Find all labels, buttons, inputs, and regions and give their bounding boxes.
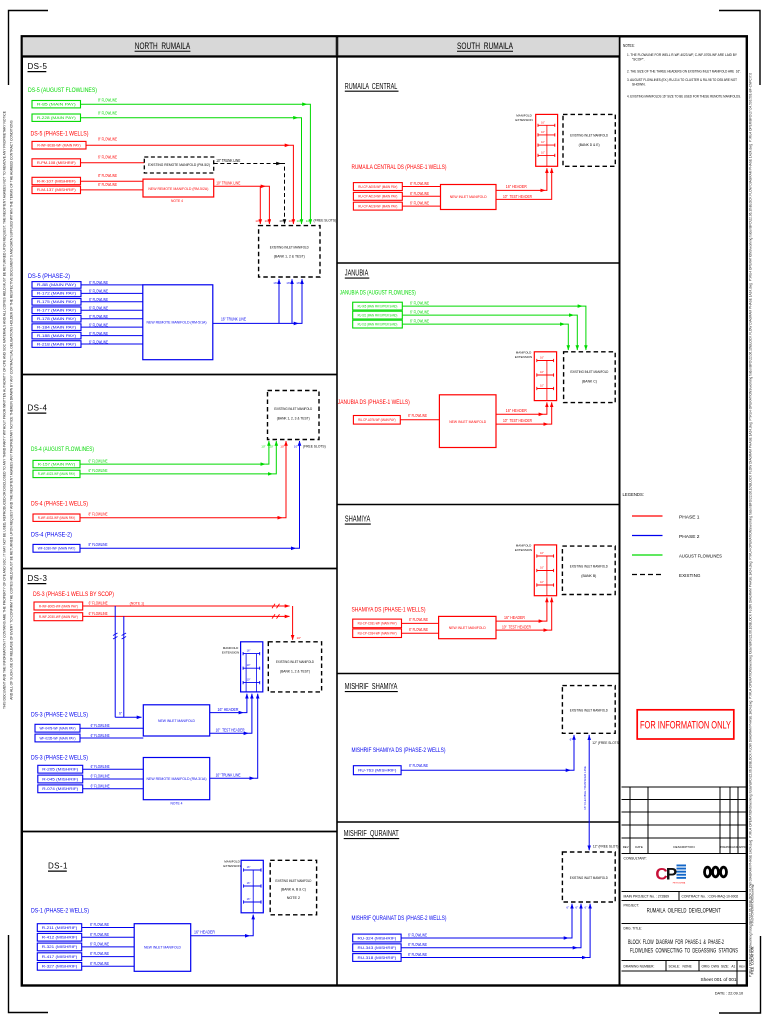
wire RU-318 to existing manifold qurainat — [401, 957, 586, 959]
well box R-188 — [32, 332, 81, 339]
svg-text:R-WF-2030-WF (MAIN PAY): R-WF-2030-WF (MAIN PAY) — [39, 615, 78, 619]
wire RU-CP-A005-WF to new inlet manifold — [402, 186, 440, 188]
well box RU-CP-A005-WF — [353, 183, 402, 191]
svg-text:NEW REMOTE MANIFOLD (RM-5/1A): NEW REMOTE MANIFOLD (RM-5/1A) — [147, 321, 208, 325]
svg-text:6" FLOWLINE: 6" FLOWLINE — [410, 300, 429, 305]
svg-text:10": 10" — [294, 445, 298, 449]
well box RU-CP-A010-WF — [353, 192, 402, 200]
wire branch 10in to inlet manifold — [259, 186, 261, 224]
wire R-157 to DS-4 manifold — [80, 463, 265, 465]
svg-text:(BANK 1, 2, 3 & TEST): (BANK 1, 2, 3 & TEST) — [277, 416, 311, 421]
well box R-PM-108 — [32, 159, 81, 167]
svg-text:8" FLOWLINE: 8" FLOWLINE — [98, 111, 117, 116]
wire 10in trunk line to extension — [210, 777, 255, 779]
well box R-321 — [37, 943, 81, 951]
svg-text:MISHRIF QURAINAT: MISHRIF QURAINAT — [344, 829, 399, 838]
svg-text:THIS DOCUMENT AND THE INFORMAT: THIS DOCUMENT AND THE INFORMATION IT CON… — [3, 110, 7, 709]
well box R-177 — [32, 307, 81, 314]
svg-text:R-172 (MAIN PAY): R-172 (MAIN PAY) — [37, 292, 76, 296]
svg-text:R-321 (MISHRIF): R-321 (MISHRIF) — [42, 945, 78, 949]
svg-text:R-R-107 (MISHRIF): R-R-107 (MISHRIF) — [37, 179, 76, 183]
svg-text:6" FLOWLINE: 6" FLOWLINE — [408, 952, 427, 957]
svg-text:(BANK C): (BANK C) — [582, 379, 598, 384]
well box RU-CP-A076-WF — [353, 416, 400, 425]
svg-text:12" (FREE SLOTS): 12" (FREE SLOTS) — [592, 741, 620, 745]
well box R-88 — [32, 282, 81, 289]
svg-text:MANIFOLD: MANIFOLD — [223, 646, 239, 650]
wire tap to phase2 new inlet manifold (vertical 2) — [123, 616, 125, 717]
svg-text:6" FLOWLINE: 6" FLOWLINE — [409, 763, 428, 768]
section divider DS-5/DS-4 — [22, 374, 338, 376]
svg-text:EXISTING INLET MANIFOLD: EXISTING INLET MANIFOLD — [570, 708, 608, 713]
svg-text:(BANK A, B & C): (BANK A, B & C) — [281, 888, 306, 892]
svg-text:6" FLOWLINE: 6" FLOWLINE — [91, 764, 110, 769]
wire RU-763 to existing manifold mishrif shamiya — [401, 769, 570, 771]
svg-text:R-184 (MAIN PAY): R-184 (MAIN PAY) — [37, 325, 76, 329]
svg-text:16": 16" — [541, 121, 545, 124]
svg-text:R-177 (MAIN PAY): R-177 (MAIN PAY) — [37, 309, 76, 313]
svg-text:RU-CP-A028-WF (MAIN PAY): RU-CP-A028-WF (MAIN PAY) — [358, 204, 397, 208]
well box RU-343 — [353, 944, 401, 952]
svg-text:NOTE 4: NOTE 4 — [171, 199, 183, 203]
svg-text:R-228 (MAIN PAY): R-228 (MAIN PAY) — [37, 116, 76, 120]
svg-text:10": 10" — [297, 219, 302, 223]
svg-text:PREPD: PREPD — [721, 845, 730, 849]
new inlet manifold DS-1 — [134, 924, 191, 972]
wire R-WF-4033-WF to DS-4 manifold — [80, 517, 282, 519]
new inlet manifold rumaila central — [441, 185, 497, 210]
well box RU-324 — [353, 934, 401, 942]
svg-text:10": 10" — [255, 219, 260, 223]
wire R-074 to remote manifold RM-3/1A — [83, 788, 144, 790]
wire R-175 to remote manifold RM-5/1A — [81, 301, 143, 303]
svg-text:MISHRIF QURAINAT DS (PHASE-2 W: MISHRIF QURAINAT DS (PHASE-2 WELLS) — [352, 915, 447, 922]
svg-text:16": 16" — [296, 281, 300, 285]
svg-text:NOTE 2: NOTE 2 — [287, 896, 300, 900]
line break marks on scop line 1 — [272, 604, 280, 608]
svg-text:6" FLOWLINE: 6" FLOWLINE — [408, 413, 427, 418]
svg-text:16": 16" — [541, 131, 545, 134]
svg-text:PETROCHINA: PETROCHINA — [673, 882, 686, 885]
well box R-211 — [37, 924, 81, 932]
well box RU-013 — [353, 320, 403, 328]
svg-text:MANIFOLD: MANIFOLD — [224, 859, 240, 863]
svg-text:R-188 (MAIN PAY): R-188 (MAIN PAY) — [37, 334, 76, 338]
svg-text:PHASE 2: PHASE 2 — [679, 534, 700, 539]
svg-text:16" HEADER: 16" HEADER — [506, 408, 527, 413]
svg-text:NOTES:: NOTES: — [623, 43, 635, 48]
section divider shamiya/mishrif shamiya — [337, 673, 620, 675]
wire 10in test header to extension — [210, 732, 249, 734]
wire R-045 to remote manifold RM-3/1A — [83, 778, 144, 780]
well box R-R-107 — [32, 177, 81, 184]
break mark on tap 2 — [122, 633, 127, 639]
svg-text:6" FLOWLINE: 6" FLOWLINE — [89, 601, 108, 606]
wire 10in test header to extension janubia — [496, 423, 548, 425]
svg-text:12" (FREE SLOT): 12" (FREE SLOT) — [593, 844, 618, 848]
svg-text:DATE : 22.09.10: DATE : 22.09.10 — [715, 991, 744, 996]
well box R-M-137 — [32, 186, 81, 193]
svg-text:6" FLOWLINE: 6" FLOWLINE — [410, 318, 429, 323]
wire taps into new inlet manifold — [115, 716, 141, 718]
section divider DS-4/DS-3 — [22, 568, 338, 570]
svg-text:6" FLOWLINE: 6" FLOWLINE — [408, 942, 427, 947]
svg-text:RU-CP-A005-WF (MAIN PAY): RU-CP-A005-WF (MAIN PAY) — [358, 185, 397, 189]
svg-text:2. THE SIZE OF THE THREE HEADE: 2. THE SIZE OF THE THREE HEADERS ON EXIS… — [627, 70, 741, 74]
wire RU-005 august flowline to existing manifold — [402, 305, 582, 307]
legend existing (dashed line) — [632, 574, 663, 576]
legend august flowlines (green line) — [632, 554, 663, 556]
svg-text:R-417 (MISHRIF): R-417 (MISHRIF) — [42, 955, 78, 959]
svg-text:10" TEST HEADER: 10" TEST HEADER — [503, 418, 532, 423]
well box R-327 — [37, 963, 81, 971]
svg-text:WF-0478-WF (MAIN PAY): WF-0478-WF (MAIN PAY) — [40, 726, 76, 730]
SOC logo — [703, 866, 728, 878]
existing inlet manifold shamiya (dashed) — [562, 546, 615, 594]
svg-text:RUMAILA CENTRAL: RUMAILA CENTRAL — [345, 82, 398, 91]
svg-text:16" FLEXIBLE TRANSFER LINE: 16" FLEXIBLE TRANSFER LINE — [583, 766, 587, 810]
new inlet manifold DS-3 — [143, 705, 209, 736]
svg-text:RU-013 (MAIN PAY/UPPER SAND): RU-013 (MAIN PAY/UPPER SAND) — [358, 322, 398, 326]
svg-text:(BANK D & E): (BANK D & E) — [579, 142, 601, 147]
svg-text:10": 10" — [261, 445, 265, 449]
header band north rumaila — [23, 37, 337, 56]
svg-text:R-PM-108 (MISHRIF): R-PM-108 (MISHRIF) — [37, 161, 76, 165]
svg-text:16": 16" — [540, 552, 544, 555]
svg-text:SCALE: NONE: SCALE: NONE — [669, 964, 692, 968]
svg-text:MISHRIF SHAMIYA: MISHRIF SHAMIYA — [345, 682, 398, 691]
wire 16in header to extension shamiya — [496, 620, 543, 622]
svg-text:ORIG DWG SIZE: A1: ORIG DWG SIZE: A1 — [702, 964, 736, 968]
existing remote manifold PM-5/2 (dashed) — [144, 157, 213, 173]
svg-text:SOUTH RUMAILA: SOUTH RUMAILA — [457, 41, 513, 51]
svg-text:DS-3 (PHASE-1 WELLS BY SCOP): DS-3 (PHASE-1 WELLS BY SCOP) — [33, 591, 114, 598]
svg-text:EXISTING REMOTE MANIFOLD (PM-5: EXISTING REMOTE MANIFOLD (PM-5/2) — [148, 163, 210, 167]
well box RU-CP-C034-WF — [353, 629, 402, 638]
svg-text:6" FLOWLINE: 6" FLOWLINE — [90, 942, 109, 947]
manifold extension rumaila central (red) — [536, 114, 558, 166]
well box R-178 — [32, 315, 81, 322]
svg-text:RU-CP-A010-WF (MAIN PAY): RU-CP-A010-WF (MAIN PAY) — [358, 195, 397, 199]
svg-text:16" HEADER: 16" HEADER — [194, 930, 215, 935]
svg-text:DS-4: DS-4 — [28, 404, 48, 413]
svg-text:6" FLOWLINE: 6" FLOWLINE — [98, 182, 117, 187]
svg-text:6" FLOWLINE: 6" FLOWLINE — [90, 961, 109, 966]
project number row — [622, 891, 747, 893]
well box RU-763 — [353, 766, 401, 775]
wire RU-CP-A076-WF to new inlet manifold — [400, 419, 439, 421]
svg-text:R-157 (MAIN PAY): R-157 (MAIN PAY) — [38, 462, 76, 466]
manifold extension janubia (red) — [534, 352, 556, 401]
svg-text:16": 16" — [247, 865, 251, 869]
svg-text:10": 10" — [269, 445, 273, 449]
svg-text:10" TEST HEADER: 10" TEST HEADER — [216, 727, 245, 732]
svg-text:R-327 (MISHRIF): R-327 (MISHRIF) — [42, 965, 78, 969]
existing inlet manifold DS-3 (dashed) — [268, 642, 321, 692]
wire RU-324 to existing manifold qurainat — [401, 937, 568, 939]
wire R-WF-2030-WF scop flowline — [83, 615, 290, 617]
svg-text:6" FLOWLINE: 6" FLOWLINE — [98, 154, 117, 159]
svg-text:DRAWING NUMBER:: DRAWING NUMBER: — [624, 964, 655, 968]
wire R-M-137 to new remote manifold — [81, 189, 144, 191]
svg-text:P: P — [666, 865, 677, 884]
svg-text:6": 6" — [585, 906, 588, 910]
svg-text:16": 16" — [247, 649, 251, 653]
legend phase 1 (red line) — [632, 515, 663, 517]
existing inlet manifold DS-1 (dashed) — [270, 860, 316, 915]
svg-text:(BANK 1, 2 & TEST): (BANK 1, 2 & TEST) — [274, 254, 306, 259]
svg-text:16" HEADER: 16" HEADER — [504, 615, 525, 620]
svg-text:FILE LOCATION:: FILE LOCATION: — [751, 946, 755, 975]
svg-text:R-045 (MISHRIF): R-045 (MISHRIF) — [42, 777, 78, 781]
svg-text:10": 10" — [280, 445, 284, 449]
sheet row — [622, 970, 747, 972]
well box R-205 — [38, 765, 83, 773]
well box R-WF-4033-WF — [33, 514, 80, 521]
svg-text:(FREE SLOTS): (FREE SLOTS) — [303, 445, 326, 449]
svg-text:CONSULTANT:: CONSULTANT: — [624, 857, 647, 861]
wire R-218 to remote manifold RM-5/1A — [81, 343, 143, 345]
svg-text:PROJECT:: PROJECT: — [624, 904, 640, 908]
svg-text:NEW INLET MANIFOLD: NEW INLET MANIFOLD — [449, 625, 486, 630]
svg-text:PHASE 1: PHASE 1 — [679, 514, 700, 519]
svg-text:MANIFOLD: MANIFOLD — [516, 113, 532, 117]
svg-text:MANIFOLD: MANIFOLD — [516, 351, 532, 355]
wire 16in flexible transfer line — [588, 735, 590, 844]
svg-text:RU-343 (MISHRIF): RU-343 (MISHRIF) — [358, 946, 397, 950]
svg-text:6" FLOWLINE: 6" FLOWLINE — [410, 201, 429, 206]
wire WF-0235-WF to new inlet manifold — [80, 737, 143, 739]
for information only stamp — [637, 710, 734, 739]
svg-text:EXISTING: EXISTING — [679, 573, 701, 578]
svg-text:10": 10" — [265, 219, 270, 223]
svg-text:NEW INLET MANIFOLD: NEW INLET MANIFOLD — [450, 194, 487, 199]
svg-text:P:\RU4 OPERATIONS\working fold: P:\RU4 OPERATIONS\working folder\BFD\22.… — [749, 73, 753, 978]
wire RU-CP-C034-WF to new inlet manifold shamiya — [402, 632, 439, 634]
svg-text:6": 6" — [119, 712, 123, 716]
svg-text:RU-CP-C031-WF (MAIN PAY): RU-CP-C031-WF (MAIN PAY) — [358, 622, 397, 626]
svg-text:Sheet 001 of 001: Sheet 001 of 001 — [701, 977, 737, 982]
svg-text:"SCOP".: "SCOP". — [632, 58, 645, 62]
svg-text:R-205 (MISHRIF): R-205 (MISHRIF) — [42, 767, 78, 771]
svg-text:(NOTE 1): (NOTE 1) — [130, 602, 145, 606]
svg-text:DS-4 (AUGUST FLOWLINES): DS-4 (AUGUST FLOWLINES) — [31, 446, 94, 453]
wire new 10in trunk line to inlet manifold — [214, 185, 266, 187]
svg-text:DESCRIPTION: DESCRIPTION — [673, 845, 694, 849]
svg-text:JANUBIA DS (PHASE-1 WELLS): JANUBIA DS (PHASE-1 WELLS) — [338, 399, 410, 406]
svg-text:MAIN PROJECT No. : 272869: MAIN PROJECT No. : 272869 — [624, 895, 670, 899]
svg-text:8" FLOWLINE: 8" FLOWLINE — [89, 511, 108, 516]
svg-text:16": 16" — [247, 881, 251, 885]
svg-text:REV: REV — [623, 845, 629, 849]
well box R-WF-2030-WF — [34, 613, 83, 621]
svg-text:CHKD: CHKD — [730, 845, 737, 849]
existing inlet manifold rumaila central (dashed) — [563, 114, 615, 166]
svg-text:R-85 (MAIN PAY): R-85 (MAIN PAY) — [37, 102, 76, 106]
svg-text:(BANK B): (BANK B) — [581, 573, 597, 578]
svg-text:10" TRUNK LINE: 10" TRUNK LINE — [216, 181, 240, 186]
svg-text:R-218 (MAIN PAY): R-218 (MAIN PAY) — [37, 342, 76, 346]
svg-text:16": 16" — [540, 371, 544, 374]
well box R-157 — [33, 460, 80, 467]
svg-text:RU-763 (MISHRIF): RU-763 (MISHRIF) — [358, 768, 396, 772]
svg-text:FLOWLINES CONNECTING TO DEG: FLOWLINES CONNECTING TO DEGASSING STATIO… — [630, 947, 738, 954]
drawing number row — [622, 960, 747, 962]
well box RU-318 — [353, 954, 401, 962]
well box R-417 — [37, 953, 81, 961]
wire R-88 to remote manifold RM-5/1A — [81, 284, 143, 286]
svg-text:APPD: APPD — [739, 845, 746, 849]
svg-text:JANUBIA: JANUBIA — [345, 269, 369, 278]
manifold extension DS-3 (blue) — [241, 642, 263, 692]
svg-text:DS-1 (PHASE-2 WELLS): DS-1 (PHASE-2 WELLS) — [31, 907, 89, 914]
well box R-045 — [38, 775, 83, 783]
svg-text:REV: REV — [739, 964, 745, 968]
svg-text:R-074 (MISHRIF): R-074 (MISHRIF) — [42, 787, 78, 791]
svg-text:10": 10" — [540, 581, 544, 584]
svg-text:10": 10" — [541, 141, 545, 144]
existing inlet manifold mishrif shamiya (dashed) — [562, 686, 615, 734]
column divider north/south — [336, 36, 338, 986]
wire R-R-107 to new remote manifold — [81, 180, 144, 182]
well box R-172 — [32, 290, 81, 297]
wire R-WF-8005-WF scop flowline — [83, 605, 290, 607]
well box R-412 — [37, 933, 81, 941]
svg-text:EXISTING INLET MANIFOLD: EXISTING INLET MANIFOLD — [570, 875, 608, 880]
svg-text:EXTENSION: EXTENSION — [515, 355, 532, 359]
svg-text:R-WF-8005-WF (MAIN PAY): R-WF-8005-WF (MAIN PAY) — [39, 604, 78, 608]
svg-text:3. AUGUST FLOWLINES (EX.) RU-2: 3. AUGUST FLOWLINES (EX.) RU-214 TO CLUS… — [627, 78, 737, 82]
svg-text:6" FLOWLINE: 6" FLOWLINE — [408, 932, 427, 937]
svg-text:(FREE SLOTS): (FREE SLOTS) — [314, 219, 337, 223]
svg-text:6": 6" — [570, 738, 573, 742]
svg-text:EXISTING INLET MANIFOLD: EXISTING INLET MANIFOLD — [270, 245, 309, 250]
wire RU-CP-A010-WF to new inlet manifold — [402, 195, 440, 197]
section divider rumaila central/janubia — [337, 262, 620, 264]
svg-text:10": 10" — [279, 219, 284, 223]
svg-text:AUGUST FLOWLINES: AUGUST FLOWLINES — [679, 553, 722, 558]
svg-text:10": 10" — [289, 219, 294, 223]
well box WF-0235-WF — [35, 734, 80, 742]
svg-text:RU-CP-A076-WF (MAIN PAY): RU-CP-A076-WF (MAIN PAY) — [358, 418, 396, 422]
wire R-172 to remote manifold RM-5/1A — [81, 292, 143, 294]
svg-text:NEW REMOTE MANIFOLD (RM-5/2A): NEW REMOTE MANIFOLD (RM-5/2A) — [148, 187, 209, 191]
wire RU-021 august flowline to existing manifold — [402, 314, 574, 316]
svg-text:RU-005 (MAIN PAY/UPPER SAND): RU-005 (MAIN PAY/UPPER SAND) — [358, 304, 398, 308]
wire tap to phase2 new inlet manifold (vertical 1) — [114, 606, 116, 717]
wire RU-013 august flowline to existing manifold — [402, 323, 565, 325]
svg-text:EXISTING INLET MANIFOLD: EXISTING INLET MANIFOLD — [570, 369, 608, 374]
svg-text:4. EXISTING MANIFOLDS 16" SIZE: 4. EXISTING MANIFOLDS 16" SIZE TO BE USE… — [627, 95, 741, 99]
drawing title row — [622, 923, 747, 925]
svg-text:DS-4 (PHASE-2): DS-4 (PHASE-2) — [31, 531, 72, 538]
svg-text:6" FLOWLINE: 6" FLOWLINE — [409, 617, 428, 622]
svg-text:6" FLOWLINE: 6" FLOWLINE — [90, 932, 109, 937]
svg-text:EXISTING INLET MANIFOLD: EXISTING INLET MANIFOLD — [275, 879, 311, 883]
svg-text:AND ALL OF SUCH USE OF RELEASE: AND ALL OF SUCH USE OF RELEASE OF EVERY … — [10, 119, 14, 699]
wire 16in trunk line to inlet manifold — [213, 322, 299, 324]
svg-text:NOTE 4: NOTE 4 — [171, 802, 183, 806]
svg-text:6" FLOWLINE: 6" FLOWLINE — [90, 951, 109, 956]
svg-text:6" FLOWLINE: 6" FLOWLINE — [91, 733, 110, 738]
svg-text:JANUBIA DS (AUGUST FLOWLINES): JANUBIA DS (AUGUST FLOWLINES) — [340, 290, 416, 297]
wire 16in header to DS-1 extension — [191, 935, 250, 937]
svg-text:R-WF-4033-WF (MAIN PAY): R-WF-4033-WF (MAIN PAY) — [38, 516, 76, 520]
svg-text:10": 10" — [247, 678, 251, 682]
manifold extension shamiya (red) — [534, 545, 556, 596]
wire WF-1030-WF to DS-4 manifold — [80, 547, 296, 549]
well box WF-0478-WF — [35, 724, 80, 732]
svg-text:FOR INFORMATION ONLY: FOR INFORMATION ONLY — [640, 720, 731, 732]
svg-text:NEW INLET MANIFOLD: NEW INLET MANIFOLD — [144, 945, 181, 950]
svg-text:16": 16" — [540, 567, 544, 570]
svg-text:8" FLOWLINE: 8" FLOWLINE — [98, 137, 117, 142]
svg-text:6" FLOWLINE: 6" FLOWLINE — [409, 627, 428, 632]
well box R-175 — [32, 299, 81, 306]
well box RU-CP-A028-WF — [353, 202, 402, 210]
svg-text:6" FLOWLINE: 6" FLOWLINE — [89, 468, 108, 473]
svg-text:6" FLOWLINE: 6" FLOWLINE — [91, 723, 110, 728]
svg-text:SHAMIYA: SHAMIYA — [345, 515, 371, 524]
wire flexible transfer line into qurainat manifold — [588, 843, 590, 850]
existing inlet manifold DS-5 (dashed) — [259, 226, 320, 277]
wire branch 16in up to inlet manifold 1 — [278, 279, 280, 323]
svg-text:BLOCK FLOW DIAGRAM FOR PHA: BLOCK FLOW DIAGRAM FOR PHASE-1 & PHASE-2 — [628, 939, 724, 946]
wire R-211 to new inlet manifold DS-1 — [82, 927, 135, 929]
svg-text:DS-1: DS-1 — [48, 862, 68, 871]
svg-text:NEW INLET MANIFOLD: NEW INLET MANIFOLD — [449, 419, 486, 424]
svg-text:16" HEADER: 16" HEADER — [218, 707, 239, 712]
svg-text:R-WF-8038-WF (MAIN PAY): R-WF-8038-WF (MAIN PAY) — [37, 143, 80, 147]
svg-text:RUMAILA CENTRAL DS (PHASE-1 WE: RUMAILA CENTRAL DS (PHASE-1 WELLS) — [352, 164, 447, 171]
well box R-WF-8005-WF — [34, 602, 83, 610]
well box RU-CP-C031-WF — [353, 619, 402, 628]
new remote manifold RM-3/1A — [143, 758, 209, 800]
svg-text:16": 16" — [273, 281, 277, 285]
svg-text:16": 16" — [540, 357, 544, 360]
svg-text:8" FLOWLINE: 8" FLOWLINE — [89, 542, 108, 547]
wire R-WF-4023-WF to DS-4 manifold — [80, 473, 273, 475]
svg-text:6" FLOWLINE: 6" FLOWLINE — [90, 922, 109, 927]
project name row — [622, 900, 747, 902]
well box R-WF-4023-WF — [33, 470, 80, 477]
svg-text:16": 16" — [247, 897, 251, 901]
svg-text:EXTENSION: EXTENSION — [222, 651, 239, 655]
wire 10in test header to extension shamiya — [496, 629, 548, 631]
header band bottom rule — [22, 56, 620, 58]
svg-text:RU-021 (MAIN PAY/UPPER SAND): RU-021 (MAIN PAY/UPPER SAND) — [358, 313, 398, 317]
svg-text:EXTENSION: EXTENSION — [515, 548, 532, 552]
wire scop lines down to DS-3 inlet manifold — [292, 606, 294, 640]
svg-text:R-211 (MISHRIF): R-211 (MISHRIF) — [42, 926, 78, 930]
svg-text:10": 10" — [306, 219, 311, 223]
svg-text:R-178 (MAIN PAY): R-178 (MAIN PAY) — [37, 317, 76, 321]
section divider mishrif shamiya/mishrif qurainat — [337, 821, 620, 823]
section divider DS-3/DS-1 — [22, 831, 338, 833]
wire RU-343 to existing manifold qurainat — [401, 947, 577, 949]
svg-text:R-M-137 (MISHRIF): R-M-137 (MISHRIF) — [37, 188, 76, 192]
wire R-327 to new inlet manifold DS-1 — [82, 965, 135, 967]
wire R-188 to remote manifold RM-5/1A — [81, 335, 143, 337]
wire R-184 to remote manifold RM-5/1A — [81, 326, 143, 328]
well box R-228 — [32, 114, 81, 121]
svg-text:10" TRUNK LINE: 10" TRUNK LINE — [216, 158, 240, 163]
new remote manifold RM-5/2A — [143, 179, 214, 197]
svg-text:DATE: DATE — [635, 845, 643, 849]
existing inlet manifold mishrif qurainat (dashed) — [562, 852, 615, 902]
svg-text:EXISTING INLET MANIFOLD: EXISTING INLET MANIFOLD — [570, 564, 608, 569]
svg-text:10": 10" — [540, 385, 544, 388]
